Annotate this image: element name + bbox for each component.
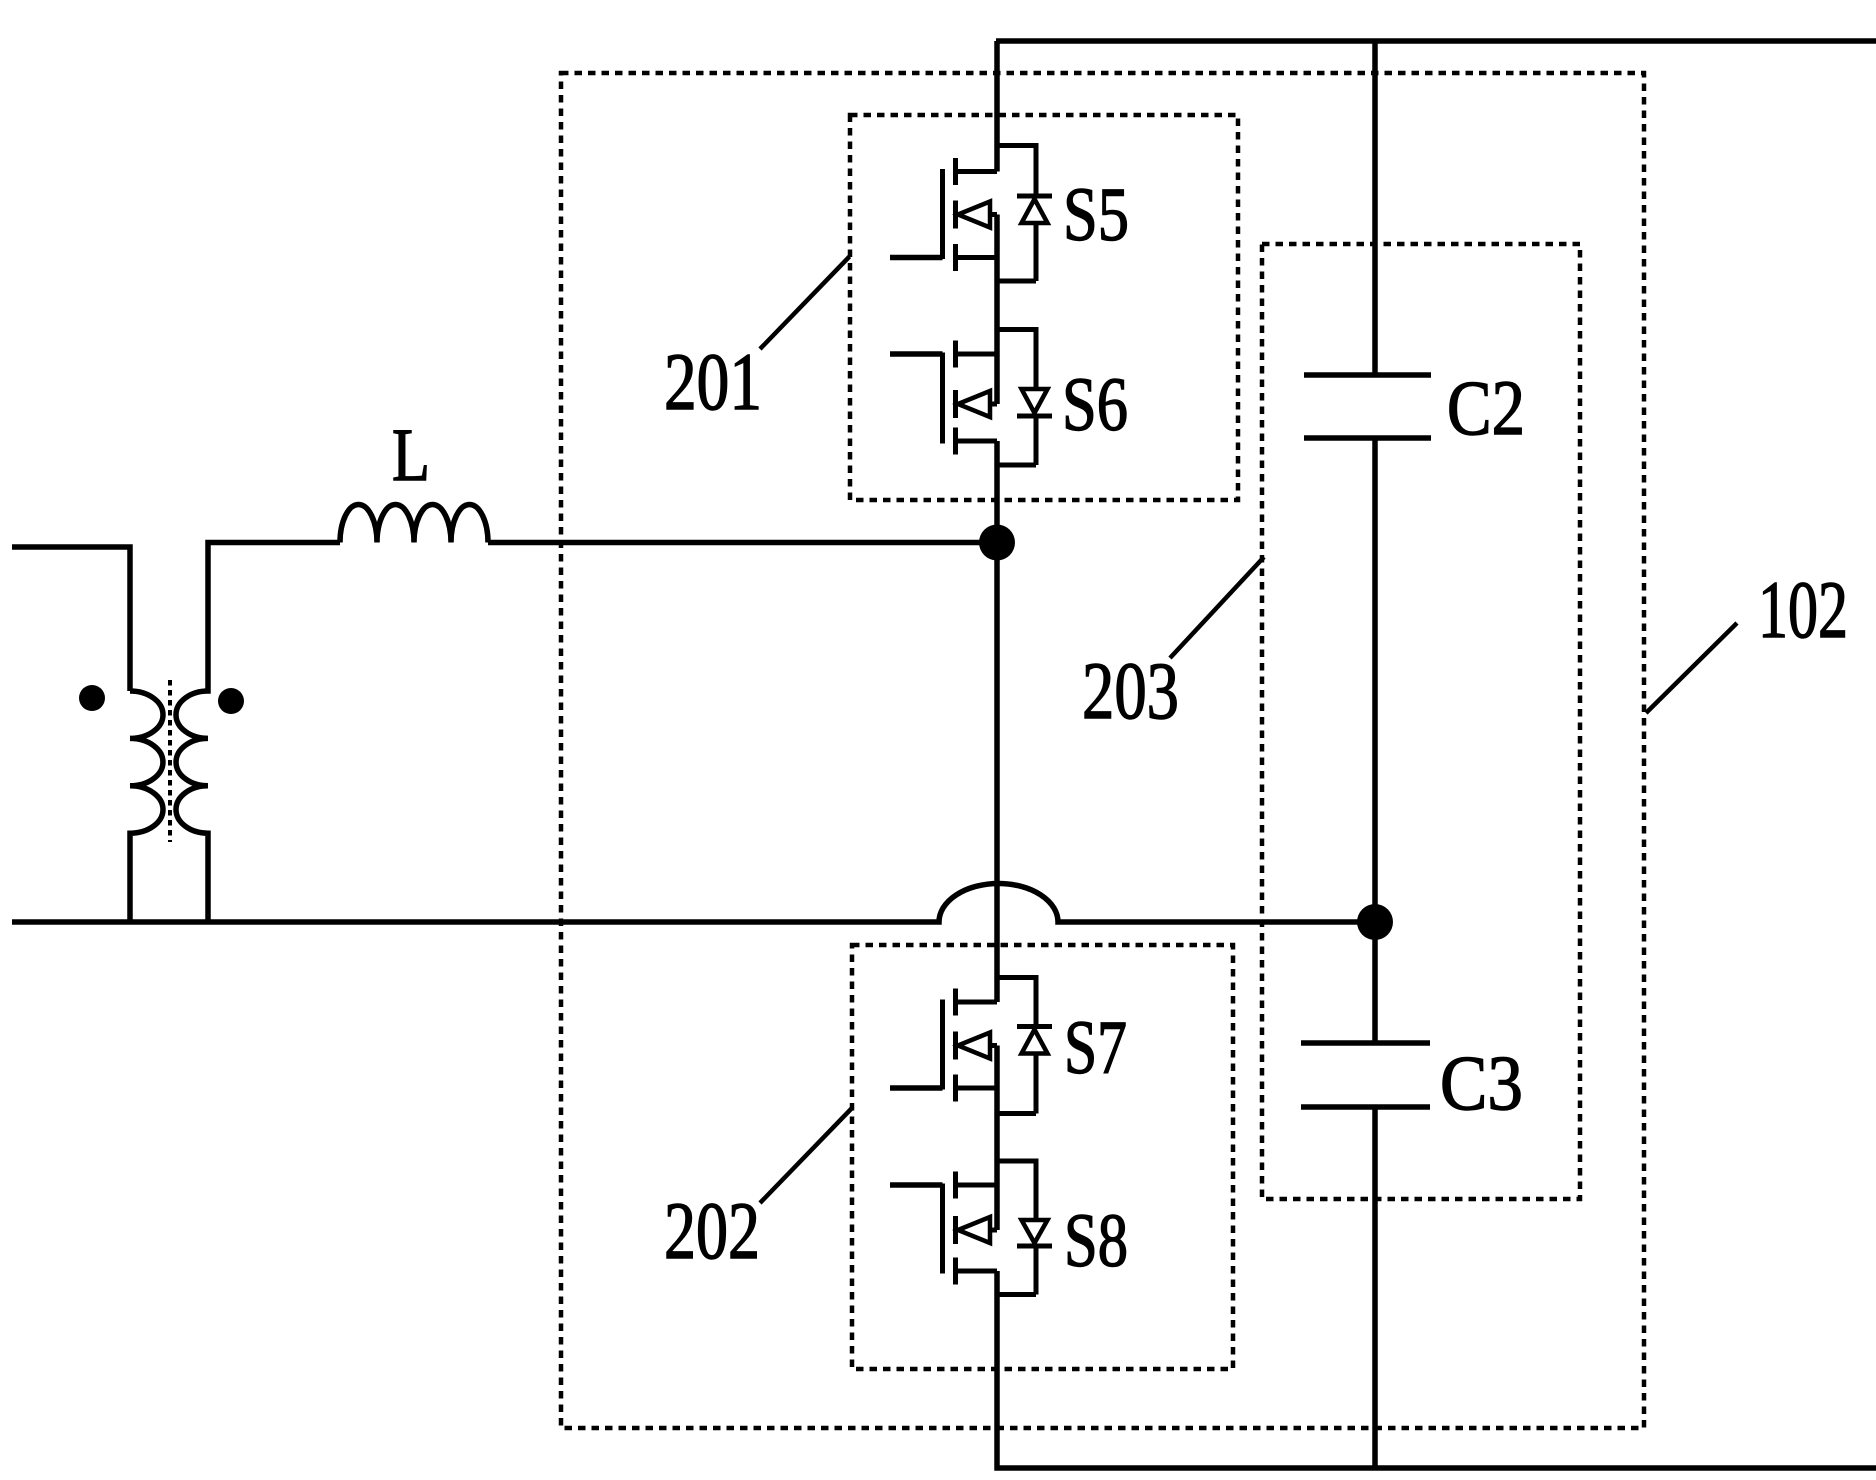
wire switch leg S7 source to S8 body — [994, 1046, 1000, 1231]
capacitor C3 — [1301, 1043, 1430, 1107]
wire switch leg S6 drain through node to S7 drain — [994, 441, 1000, 1002]
polarity dot secondary — [218, 688, 244, 714]
polarity dot primary — [79, 685, 105, 711]
transistor S7 (N-MOSFET, drain top / source bottom) — [890, 978, 1052, 1114]
svg-text:S6: S6 — [1062, 363, 1128, 447]
svg-text:C3: C3 — [1440, 1039, 1523, 1126]
wire top rail — [996, 38, 1876, 44]
inductor L — [340, 505, 488, 543]
svg-text:S8: S8 — [1064, 1199, 1128, 1283]
transformer primary top lead — [12, 547, 130, 691]
dashed box 201 (switch pair S5/S6) — [850, 115, 1238, 500]
wire capacitor leg top (rail to C2) — [1372, 41, 1378, 375]
svg-text:203: 203 — [1082, 645, 1179, 736]
wire capacitor leg middle (C2 to C3 through node) — [1372, 438, 1378, 1043]
wire inductor output to switch midpoint node — [488, 540, 997, 546]
dashed box 102 (converter stage outline) — [561, 73, 1644, 1428]
leader line for 202 — [760, 1108, 852, 1203]
node junction: inductor to switch leg midpoint — [979, 525, 1015, 561]
dashed box 203 (capacitor branch C2/C3) — [1262, 244, 1580, 1199]
leader line for 203 — [1170, 557, 1264, 658]
svg-text:202: 202 — [664, 1185, 760, 1276]
svg-text:C2: C2 — [1447, 364, 1525, 451]
leader line for 102 — [1646, 623, 1737, 713]
transformer primary winding — [130, 691, 163, 922]
leader line for 201 — [760, 257, 850, 350]
transistor S5 (N-MOSFET, drain top / source bottom) — [890, 146, 1052, 282]
capacitor C2 — [1304, 375, 1431, 438]
svg-text:S7: S7 — [1064, 1006, 1127, 1090]
svg-text:201: 201 — [664, 336, 762, 427]
transistor S8 (N-MOSFET, source top / drain bottom) — [890, 1161, 1052, 1295]
svg-text:L: L — [392, 414, 430, 497]
wire switch leg upper (top rail to S5 drain) — [994, 41, 1000, 172]
dashed box 202 (switch pair S7/S8) — [852, 945, 1233, 1369]
transformer secondary winding — [176, 543, 340, 923]
wire switch leg S5 source to S6 body — [994, 215, 1000, 405]
wire bottom rail with switch-leg lower segment — [997, 1271, 1876, 1468]
transistor S6 (N-MOSFET, source top / drain bottom) — [890, 330, 1052, 466]
wire capacitor leg bottom (C3 to bottom rail) — [1372, 1107, 1378, 1468]
wire secondary bottom with crossover hump to capacitor midpoint — [12, 884, 1375, 923]
svg-text:S5: S5 — [1063, 173, 1129, 257]
node junction: secondary return to capacitor midpoint — [1357, 904, 1393, 940]
svg-text:102: 102 — [1758, 564, 1848, 655]
transformer core — [168, 680, 172, 842]
